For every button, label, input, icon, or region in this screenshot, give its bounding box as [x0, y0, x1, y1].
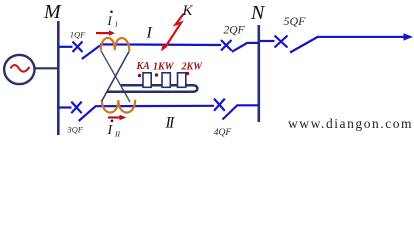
svg-text:1: 1 [115, 21, 119, 29]
disconnect blade 2QF [232, 43, 247, 52]
CT on line II (orange coil, below line) [102, 100, 135, 113]
svg-text:KA: KA [136, 61, 151, 72]
fault K lightning [166, 14, 184, 47]
svg-text:3QF: 3QF [66, 124, 83, 134]
relay circuit loop (top wire, U-turn, bottom wire) [107, 85, 197, 92]
disconnect blade 4QF [223, 106, 238, 120]
svg-text:K: K [182, 3, 194, 19]
outgoing line with arrow [317, 36, 404, 38]
breaker/disconnect 5QF [275, 36, 288, 48]
wire line I main [100, 43, 221, 46]
breaker 2QF [221, 40, 232, 51]
current arrow I1 [96, 30, 115, 35]
wire source to bus M [35, 67, 59, 69]
wire line II stub from M [60, 106, 72, 108]
terminal dot KA [138, 74, 141, 77]
svg-text:2QF: 2QF [224, 24, 246, 36]
svg-text:M: M [43, 1, 62, 23]
svg-text:4QF: 4QF [214, 128, 232, 138]
CT on line I (orange coil) [101, 38, 130, 51]
svg-text:1KW: 1KW [153, 62, 175, 73]
svg-text:I: I [146, 25, 153, 42]
wire to bus N line II [237, 104, 260, 106]
disconnect blade 5QF [290, 37, 318, 53]
wire line II main [95, 105, 214, 108]
svg-text:I: I [107, 14, 113, 28]
meter 2KW box [178, 73, 186, 88]
svg-text:1QF: 1QF [70, 29, 86, 39]
AC source G [4, 55, 34, 84]
breaker 4QF [214, 99, 225, 111]
breaker 1QF [73, 42, 83, 53]
CT secondary crossing wire B (top-right to bottom-left) [102, 52, 129, 102]
svg-text:2KW: 2KW [181, 62, 204, 73]
disconnect blade 1QF [82, 46, 100, 60]
wire to bus N [247, 42, 260, 44]
wire line I stub from M [60, 46, 73, 48]
meter 1KW box [162, 73, 170, 88]
wire stub right of N on line I [260, 40, 275, 42]
bus N [257, 25, 260, 122]
svg-text:5QF: 5QF [284, 14, 307, 28]
svg-text:www.diangon.com: www.diangon.com [288, 116, 413, 131]
svg-text:N: N [250, 2, 266, 24]
terminal dot 2KW [186, 72, 189, 75]
terminal dot 1KW [155, 73, 158, 76]
svg-text:II: II [114, 130, 120, 139]
current arrow I_II [108, 115, 127, 121]
breaker 3QF [71, 102, 81, 114]
relay KA box [143, 73, 151, 88]
disconnect blade 3QF [79, 106, 96, 121]
CT secondary crossing wire A (top-left CT end to line II CT right end) [101, 51, 130, 102]
bus M [57, 21, 60, 135]
